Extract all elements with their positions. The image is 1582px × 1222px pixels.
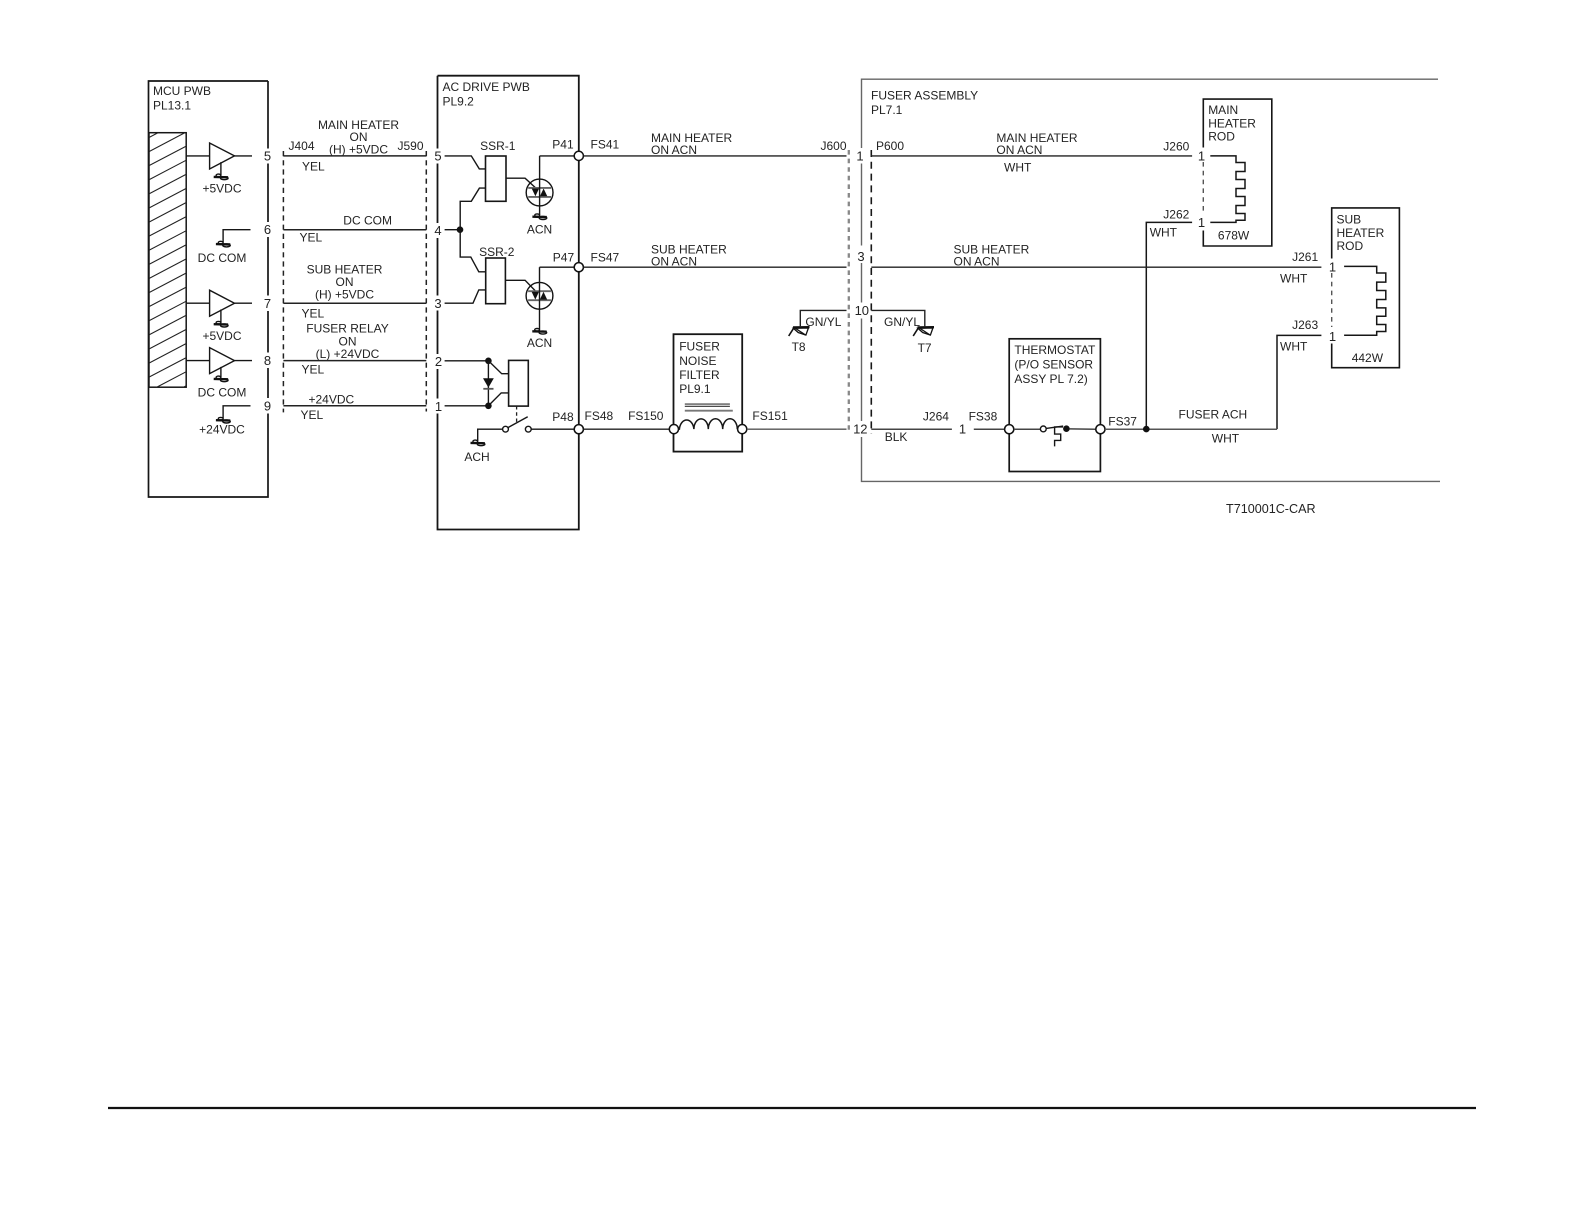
node FS37 (thermostat right) bbox=[1096, 425, 1105, 434]
svg-text:ACN: ACN bbox=[527, 222, 552, 236]
wire J263 riser from FUSER ACH bbox=[1277, 335, 1321, 429]
thermostat wire to contact bbox=[1014, 428, 1041, 430]
svg-text:J590: J590 bbox=[398, 139, 424, 153]
wire FS38 bbox=[974, 428, 1005, 430]
svg-text:THERMOSTAT: THERMOSTAT bbox=[1014, 343, 1096, 357]
svg-text:3: 3 bbox=[434, 296, 441, 311]
MCU PWB board box PL13.1 bbox=[149, 81, 269, 497]
svg-text:5: 5 bbox=[264, 149, 271, 164]
svg-text:BLK: BLK bbox=[885, 430, 908, 444]
node FS150 (filter input) bbox=[669, 425, 678, 434]
svg-text:678W: 678W bbox=[1218, 229, 1250, 243]
relay coil upper lead bbox=[488, 361, 508, 374]
svg-text:WHT: WHT bbox=[1150, 226, 1178, 240]
wire contact to node P48 bbox=[531, 428, 575, 430]
triac TR2 bbox=[526, 282, 553, 309]
svg-text:FS47: FS47 bbox=[591, 251, 620, 265]
thermostat bimetal element bbox=[1055, 427, 1063, 447]
THERMOSTAT box (P/O SENSOR ASSY PL 7.2) bbox=[1009, 339, 1100, 472]
wire to node P41 bbox=[540, 155, 575, 157]
svg-text:DC COM: DC COM bbox=[343, 214, 392, 228]
svg-text:FUSER RELAY: FUSER RELAY bbox=[306, 322, 388, 336]
svg-text:(P/O SENSOR: (P/O SENSOR bbox=[1014, 358, 1093, 372]
svg-text:FUSER: FUSER bbox=[679, 340, 720, 354]
wire pin2 to relay bbox=[445, 360, 489, 362]
wire pin3 to SSR-2 lower input bbox=[445, 290, 486, 303]
svg-text:FS151: FS151 bbox=[752, 409, 788, 423]
ACH wire from contact bbox=[478, 429, 503, 441]
svg-text:+24VDC: +24VDC bbox=[309, 392, 355, 406]
svg-text:7: 7 bbox=[264, 296, 271, 311]
relay contact switch bbox=[503, 417, 532, 432]
junction dot DC COM node bbox=[457, 226, 464, 233]
svg-text:DC COM: DC COM bbox=[198, 386, 247, 400]
ground symbol ACH bbox=[471, 440, 485, 446]
wire pin4 to junction bbox=[445, 229, 461, 231]
svg-text:6: 6 bbox=[264, 222, 271, 237]
svg-text:T7: T7 bbox=[918, 341, 932, 355]
rod connector dashed edge (J261/J263) bbox=[1331, 273, 1333, 327]
main heater rod element 678W bbox=[1210, 156, 1245, 223]
node FS38 (thermostat left) bbox=[1005, 425, 1014, 434]
connector J590 dashed line bbox=[425, 151, 427, 412]
svg-text:WHT: WHT bbox=[1004, 161, 1032, 175]
svg-text:1: 1 bbox=[856, 148, 863, 163]
svg-text:FS150: FS150 bbox=[628, 409, 664, 423]
svg-text:FUSER ACH: FUSER ACH bbox=[1179, 407, 1248, 421]
T7 frame ground stub GN/YL bbox=[871, 310, 925, 326]
svg-text:WHT: WHT bbox=[1280, 339, 1308, 353]
ground symbol ACN (TR2) bbox=[532, 329, 546, 335]
svg-text:1: 1 bbox=[1198, 148, 1205, 163]
svg-text:J404: J404 bbox=[289, 139, 315, 153]
ground symbol +24VDC pin9 bbox=[216, 417, 230, 423]
connector J600 dashed line bbox=[848, 150, 850, 434]
svg-text:ON ACN: ON ACN bbox=[954, 254, 1000, 268]
svg-text:HEATER: HEATER bbox=[1337, 226, 1385, 240]
relay actuator dashed link bbox=[516, 406, 518, 423]
+24VDC stub (pin 9) bbox=[223, 406, 250, 419]
connector P600 dashed line bbox=[870, 150, 872, 434]
svg-text:ROD: ROD bbox=[1337, 239, 1364, 253]
ACN vertical through triac TR1 bbox=[539, 156, 541, 215]
svg-text:12: 12 bbox=[853, 422, 867, 437]
wire FS41 (MAIN HEATER ON ACN bus) bbox=[583, 155, 846, 157]
svg-text:FS37: FS37 bbox=[1108, 415, 1137, 429]
relay coil lower lead bbox=[488, 393, 508, 406]
svg-text:GN/YL: GN/YL bbox=[884, 315, 920, 329]
buffer U3 (pin 8 driver) bbox=[186, 348, 252, 378]
svg-text:ON ACN: ON ACN bbox=[651, 143, 697, 157]
wire +24VDC (pin9 to pin1) bbox=[283, 405, 426, 407]
svg-text:4: 4 bbox=[434, 223, 441, 238]
svg-text:ON ACN: ON ACN bbox=[996, 143, 1042, 157]
FUSER NOISE FILTER box PL9.1 bbox=[674, 334, 743, 451]
svg-text:3: 3 bbox=[857, 249, 864, 264]
svg-text:10: 10 bbox=[855, 303, 869, 318]
connector hatched bar (card edge) bbox=[148, 118, 187, 406]
svg-text:P41: P41 bbox=[552, 138, 574, 152]
svg-text:1: 1 bbox=[435, 399, 442, 414]
svg-text:FS48: FS48 bbox=[585, 409, 614, 423]
svg-text:P47: P47 bbox=[553, 251, 575, 265]
junction dot FUSER ACH bbox=[1143, 426, 1150, 433]
wire FUSER ACH WHT bbox=[1105, 428, 1277, 430]
buffer U1 (pin 5 driver) bbox=[186, 143, 252, 175]
footer rule bbox=[108, 1107, 1476, 1109]
wire J262 (FUSER ACH to rod) bbox=[1146, 222, 1192, 429]
svg-text:T710001C-CAR: T710001C-CAR bbox=[1226, 502, 1316, 516]
svg-text:5: 5 bbox=[434, 149, 441, 164]
svg-text:FUSER ASSEMBLY: FUSER ASSEMBLY bbox=[871, 89, 978, 103]
connector J404 dashed line bbox=[282, 151, 284, 412]
SSR-1 solid state relay bbox=[486, 156, 507, 201]
SSR-2 output lead to triac bbox=[505, 280, 535, 290]
ground symbol ACN (TR1) bbox=[532, 214, 546, 220]
svg-text:NOISE: NOISE bbox=[679, 354, 716, 368]
svg-text:PL13.1: PL13.1 bbox=[153, 99, 191, 113]
rod connector dashed edge (J260/J262) bbox=[1202, 162, 1204, 215]
svg-text:(H) +5VDC: (H) +5VDC bbox=[315, 288, 374, 302]
svg-text:+24VDC: +24VDC bbox=[199, 423, 245, 437]
ACN vertical through triac TR2 bbox=[539, 267, 541, 329]
SSR-1 output lead to triac bbox=[506, 178, 535, 187]
ground symbol (+5VDC) for U2 bbox=[214, 321, 228, 327]
svg-text:ACH: ACH bbox=[464, 450, 489, 464]
svg-text:MCU PWB: MCU PWB bbox=[153, 84, 211, 98]
wire SUB HEATER ON ACN (fuser side) bbox=[871, 266, 1321, 268]
T8 frame ground stub GN/YL bbox=[800, 310, 846, 326]
svg-text:WHT: WHT bbox=[1212, 431, 1240, 445]
wire pin5 to SSR-1 input bbox=[445, 156, 486, 169]
svg-text:2: 2 bbox=[435, 354, 442, 369]
svg-text:SUB: SUB bbox=[1337, 213, 1362, 227]
svg-text:+5VDC: +5VDC bbox=[202, 329, 241, 343]
triac TR1 bbox=[526, 179, 553, 206]
svg-text:P48: P48 bbox=[552, 410, 574, 424]
wire SUB HEATER ON (pin7 to pin3) bbox=[283, 302, 426, 304]
wire junction to SSR-2 upper input bbox=[460, 230, 486, 272]
svg-text:J600: J600 bbox=[821, 139, 847, 153]
svg-text:AC DRIVE PWB: AC DRIVE PWB bbox=[443, 80, 530, 94]
svg-text:J262: J262 bbox=[1163, 208, 1189, 222]
svg-text:PL9.1: PL9.1 bbox=[679, 382, 711, 396]
svg-text:YEL: YEL bbox=[301, 408, 324, 422]
svg-text:DC COM: DC COM bbox=[198, 251, 247, 265]
SSR-2 solid state relay bbox=[486, 258, 506, 304]
svg-text:1: 1 bbox=[1329, 259, 1336, 274]
wire pin1 to relay bbox=[445, 405, 489, 407]
svg-text:WHT: WHT bbox=[1280, 271, 1308, 285]
wire to node P47 bbox=[540, 266, 576, 268]
filter inductor coil bbox=[679, 419, 738, 429]
svg-text:T8: T8 bbox=[792, 340, 806, 354]
thermostat contact bbox=[1040, 426, 1046, 432]
svg-text:P600: P600 bbox=[876, 139, 904, 153]
svg-text:FS41: FS41 bbox=[591, 138, 620, 152]
junction dot relay upper bbox=[485, 358, 492, 365]
svg-text:ASSY PL 7.2): ASSY PL 7.2) bbox=[1014, 372, 1087, 386]
wire FUSER RELAY ON (pin8 to pin2) bbox=[283, 360, 426, 362]
SSR-1 lower input lead bbox=[460, 188, 485, 229]
SUB HEATER ROD box bbox=[1332, 208, 1400, 368]
svg-text:ON ACN: ON ACN bbox=[651, 254, 697, 268]
svg-text:(L) +24VDC: (L) +24VDC bbox=[316, 347, 380, 361]
svg-text:ACN: ACN bbox=[527, 336, 552, 350]
wire FS48 bbox=[583, 428, 669, 430]
node P41 bbox=[574, 151, 583, 160]
node P47 bbox=[574, 263, 583, 272]
svg-text:YEL: YEL bbox=[302, 160, 325, 174]
thermostat wire from contact bbox=[1070, 428, 1096, 430]
svg-text:1: 1 bbox=[1198, 215, 1205, 230]
flyback diode D1 bbox=[487, 361, 489, 406]
wire FS47 (SUB HEATER ON ACN bus) bbox=[583, 266, 846, 268]
svg-text:YEL: YEL bbox=[302, 307, 325, 321]
DC COM stub (pin 6) bbox=[223, 230, 250, 243]
wire BLK (pin12 to J264) bbox=[871, 428, 952, 430]
buffer U2 (pin 7 driver) bbox=[186, 290, 252, 322]
node FS151 (filter output) bbox=[738, 425, 747, 434]
svg-text:442W: 442W bbox=[1352, 351, 1384, 365]
svg-text:YEL: YEL bbox=[302, 363, 325, 377]
svg-text:MAIN: MAIN bbox=[1208, 103, 1238, 117]
svg-text:FS38: FS38 bbox=[969, 410, 998, 424]
svg-text:YEL: YEL bbox=[300, 231, 323, 245]
svg-text:FILTER: FILTER bbox=[679, 368, 720, 382]
svg-text:J264: J264 bbox=[923, 410, 949, 424]
svg-text:ROD: ROD bbox=[1208, 130, 1235, 144]
ground symbol DC COM for U3 bbox=[214, 376, 228, 382]
wire DC COM (pin6 to pin4) bbox=[283, 229, 426, 231]
svg-text:+5VDC: +5VDC bbox=[202, 182, 241, 196]
ground symbol (+5VDC) for U1 bbox=[214, 174, 228, 180]
svg-text:8: 8 bbox=[264, 353, 271, 368]
svg-text:PL9.2: PL9.2 bbox=[443, 95, 475, 109]
svg-text:1: 1 bbox=[1329, 329, 1336, 344]
svg-text:J263: J263 bbox=[1292, 318, 1318, 332]
svg-text:PL7.1: PL7.1 bbox=[871, 103, 903, 117]
filter core bars bbox=[685, 403, 730, 405]
ground symbol DC COM pin6 bbox=[216, 241, 230, 247]
svg-text:SSR-2: SSR-2 bbox=[479, 245, 515, 259]
MAIN HEATER ROD box bbox=[1203, 99, 1272, 246]
relay coil K1 bbox=[509, 360, 529, 406]
svg-text:1: 1 bbox=[959, 421, 966, 436]
wire MAIN HEATER ON (pin5 to pin5) bbox=[283, 155, 426, 157]
junction dot relay lower bbox=[485, 403, 492, 410]
AC DRIVE PWB board box PL9.2 bbox=[438, 76, 579, 530]
svg-text:9: 9 bbox=[264, 398, 271, 413]
svg-text:(H) +5VDC: (H) +5VDC bbox=[329, 142, 388, 156]
wire MAIN HEATER ON ACN (fuser side) bbox=[871, 155, 1192, 157]
svg-text:J260: J260 bbox=[1163, 139, 1189, 153]
wire FS151 bbox=[747, 428, 847, 430]
svg-text:HEATER: HEATER bbox=[1208, 116, 1256, 130]
svg-text:GN/YL: GN/YL bbox=[805, 315, 841, 329]
svg-text:SSR-1: SSR-1 bbox=[480, 139, 516, 153]
FUSER ASSEMBLY box PL7.1 (open right side) bbox=[862, 79, 1441, 481]
svg-text:J261: J261 bbox=[1292, 250, 1318, 264]
sub heater rod element 442W bbox=[1344, 266, 1386, 335]
node P48 bbox=[574, 425, 583, 434]
